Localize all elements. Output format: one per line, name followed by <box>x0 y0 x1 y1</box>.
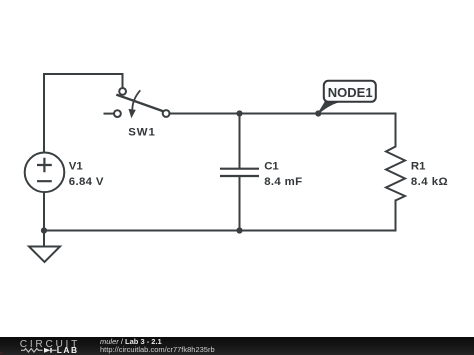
wire ground stem <box>43 231 45 247</box>
wire C1 bottom <box>239 176 241 231</box>
junction dot C1 top <box>236 110 242 116</box>
svg-text:NODE1: NODE1 <box>328 85 373 100</box>
junction dot NODE1 <box>315 110 321 116</box>
wire V1 bottom to ground junction <box>43 192 45 231</box>
label V1 value <box>69 160 104 188</box>
wire switch right to top-right corner and down to R1 <box>169 114 395 146</box>
label R1 value <box>411 160 448 188</box>
resistor R1 <box>386 145 405 201</box>
junction dot C1 bottom <box>236 227 242 233</box>
logo resistor + diode symbol <box>21 346 58 354</box>
svg-text:8.4 kΩ: 8.4 kΩ <box>411 176 448 188</box>
svg-text:C1: C1 <box>264 160 279 172</box>
junction dot ground <box>41 227 47 233</box>
svg-text:R1: R1 <box>411 160 426 172</box>
svg-text:V1: V1 <box>69 160 84 172</box>
favicon fragment bottom-left <box>0 352 2 354</box>
capacitor C1 <box>220 169 259 176</box>
ground <box>29 247 60 263</box>
node NODE1 callout <box>318 81 376 114</box>
voltage source V1 <box>25 153 65 193</box>
switch actuator arrow <box>132 90 140 110</box>
label C1 value <box>264 160 302 188</box>
svg-text:SW1: SW1 <box>128 126 155 138</box>
wire top-left horizontal from V1 to switch <box>44 74 123 153</box>
footer bar <box>0 337 474 355</box>
svg-text:6.84 V: 6.84 V <box>69 176 104 188</box>
wire C1 top <box>239 114 241 169</box>
switch SW1 <box>104 88 170 118</box>
wire bottom rail <box>44 201 396 231</box>
circuitlab logo text <box>20 339 80 351</box>
switch blade <box>116 95 163 112</box>
svg-text:8.4 mF: 8.4 mF <box>264 176 302 188</box>
